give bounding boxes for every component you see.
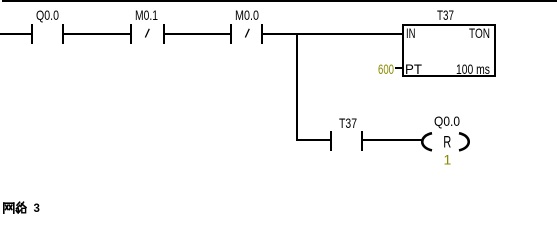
- svg-text:Q0.0: Q0.0: [434, 113, 460, 129]
- svg-text:M0.0: M0.0: [235, 7, 259, 23]
- svg-text:T37: T37: [437, 7, 454, 23]
- svg-text:T37: T37: [339, 115, 357, 131]
- svg-text:R: R: [443, 133, 451, 152]
- svg-text:TON: TON: [469, 25, 490, 41]
- svg-text:IN: IN: [406, 25, 416, 41]
- svg-text:600: 600: [378, 61, 394, 77]
- svg-text:PT: PT: [405, 61, 422, 77]
- svg-text:1: 1: [444, 152, 452, 168]
- svg-text:100 ms: 100 ms: [456, 61, 490, 77]
- svg-text:M0.1: M0.1: [135, 7, 158, 23]
- svg-text:3: 3: [34, 203, 40, 214]
- svg-text:Q0.0: Q0.0: [36, 7, 59, 23]
